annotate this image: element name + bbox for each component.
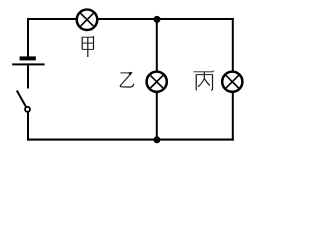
battery	[12, 56, 44, 65]
label 乙	[120, 72, 134, 87]
wire top horizontal	[27, 18, 234, 20]
wire right vertical (lamp 丙 branch)	[232, 18, 234, 141]
junction top	[154, 16, 161, 23]
wire switch to bottom	[27, 110, 29, 141]
lamp 乙	[147, 72, 167, 92]
wire bottom horizontal	[27, 139, 234, 141]
junction bottom	[153, 136, 160, 143]
wire left vertical (battery branch)	[27, 18, 29, 57]
wire battery to switch	[27, 66, 29, 89]
label 丙	[193, 70, 213, 90]
lamp 丙	[222, 72, 242, 92]
switch (open)	[17, 91, 30, 112]
lamp 甲	[77, 9, 98, 30]
wire middle vertical (lamp 乙 branch)	[156, 19, 158, 141]
label 甲	[82, 36, 94, 57]
